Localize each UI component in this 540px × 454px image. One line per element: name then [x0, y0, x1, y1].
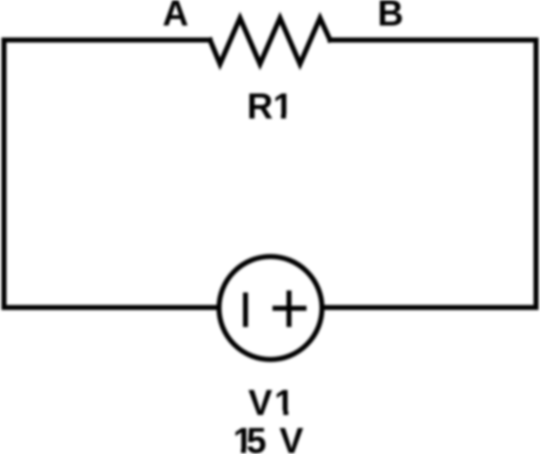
wire: [2, 40, 7, 308]
wire: [322, 305, 536, 310]
svg-text:V1: V1: [248, 382, 294, 423]
wire: [5, 305, 220, 310]
svg-text:R1: R1: [247, 86, 293, 127]
resistor R1: [210, 18, 330, 64]
wire: [5, 38, 211, 43]
svg-text:5 V: 5 V: [246, 420, 303, 454]
svg-text:A: A: [163, 0, 189, 33]
value 15 V: [232, 420, 304, 454]
svg-text:B: B: [378, 0, 404, 33]
voltage source V1: [219, 257, 322, 360]
label R1: [247, 86, 293, 127]
wire: [330, 38, 536, 43]
label V1: [248, 382, 295, 423]
wire: [534, 40, 539, 308]
